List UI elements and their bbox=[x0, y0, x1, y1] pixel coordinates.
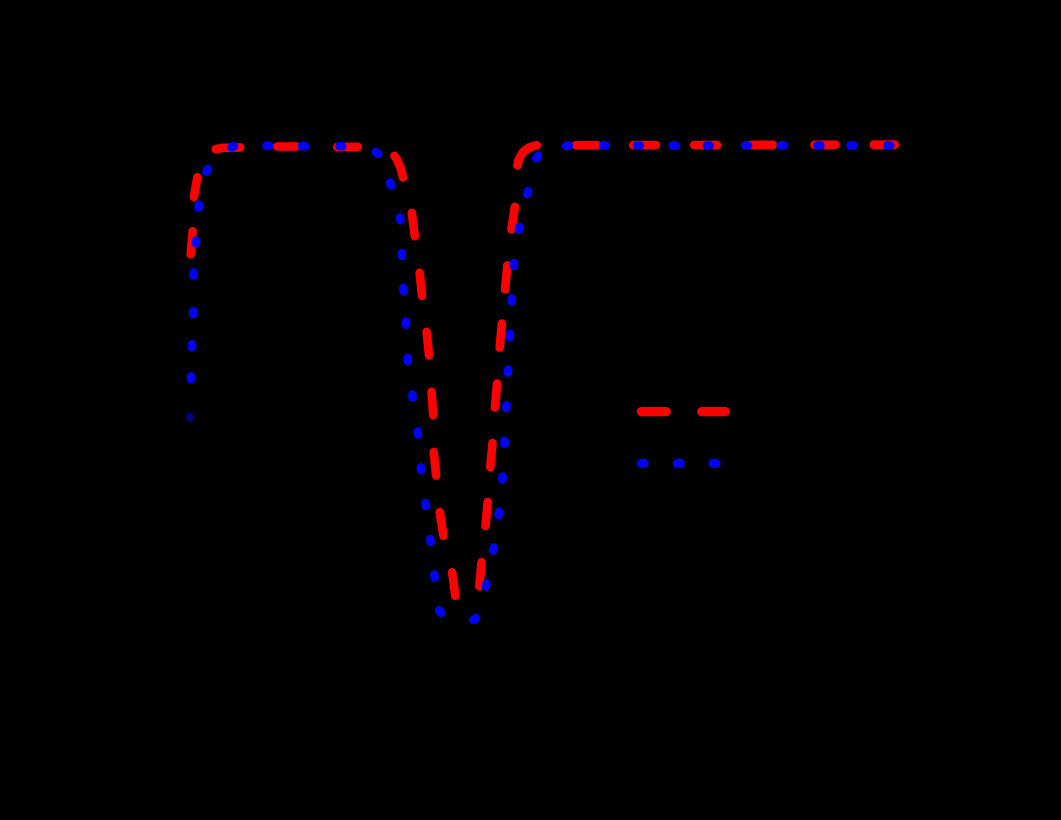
legend dotted line sample (blue) bbox=[641, 459, 716, 468]
legend dashed line sample (red) bbox=[642, 407, 726, 416]
red dashed curve (S21 dashed trace) bbox=[191, 145, 895, 596]
blue dotted curve (S21 dotted trace) bbox=[190, 145, 890, 619]
